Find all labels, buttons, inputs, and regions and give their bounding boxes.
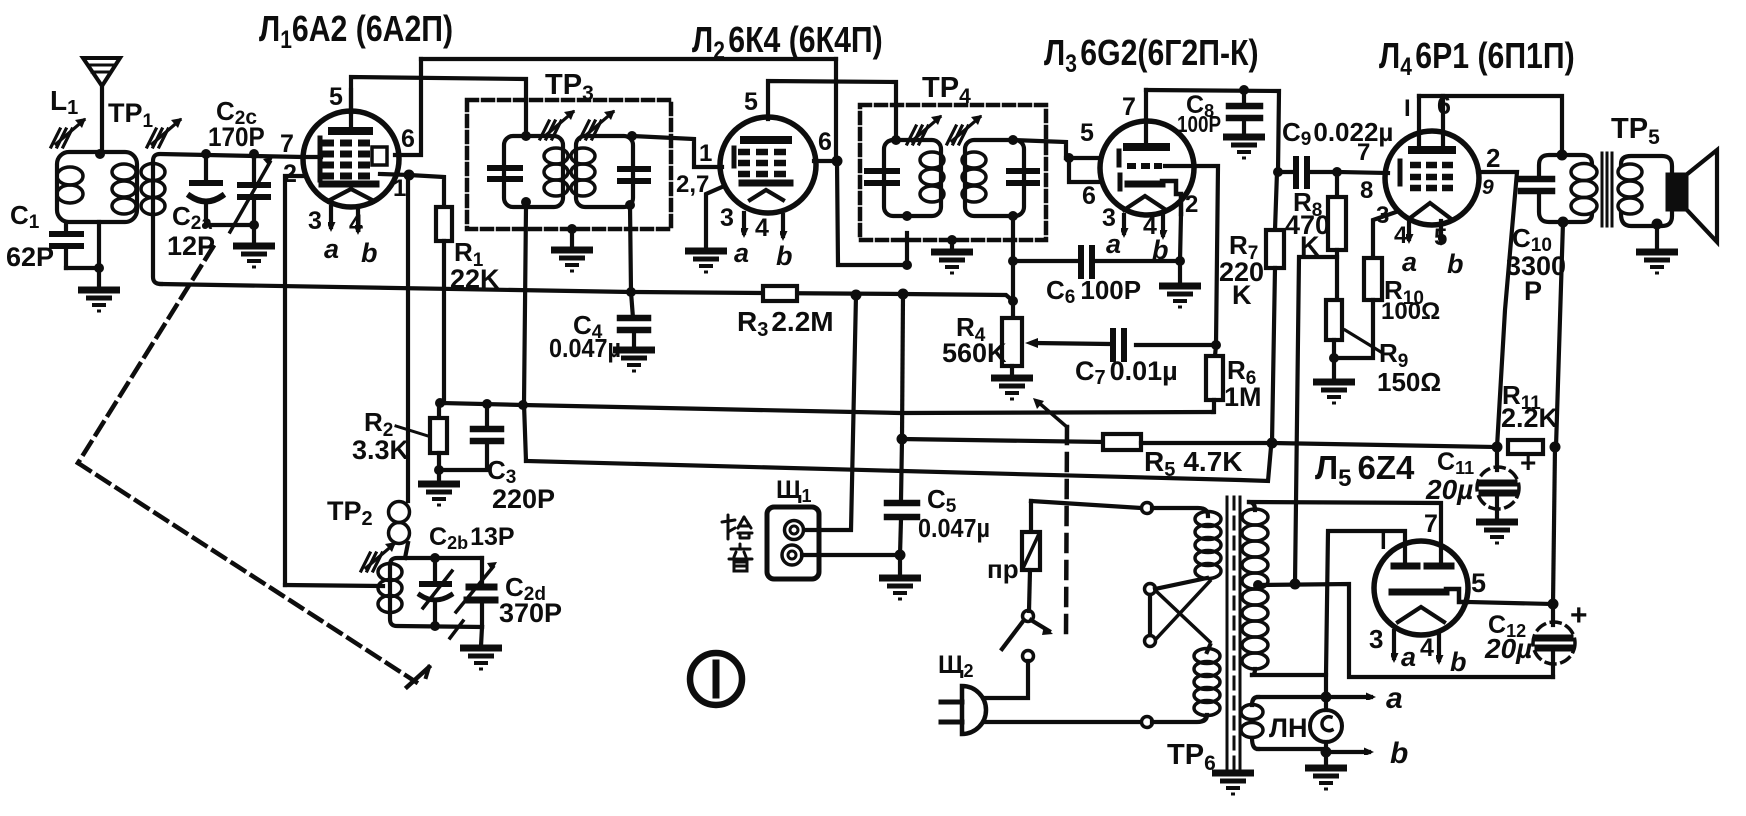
- ground under V2 cathode: [685, 251, 727, 272]
- pin 6 riser of V4: [1441, 96, 1445, 147]
- svg-text:TP2: TP2: [327, 496, 373, 530]
- node tank bottom: [430, 621, 440, 631]
- wire R3 node down to B+ bus: [902, 294, 903, 439]
- tube V4 envelope: [1385, 131, 1479, 225]
- pin 1 riser of V4: [1417, 96, 1421, 147]
- anode bar of V2: [744, 136, 788, 144]
- svg-text:TP1: TP1: [108, 98, 154, 132]
- ground under C6: [1159, 286, 1201, 307]
- svg-text:a: a: [734, 238, 749, 268]
- wire pin1 to R1: [409, 175, 444, 207]
- wire R2 bottom to ground: [437, 470, 441, 482]
- mains plug SH2: [941, 686, 986, 734]
- antenna: [83, 58, 120, 154]
- node B+ bus left end: [897, 434, 908, 445]
- node tank top: [430, 553, 440, 563]
- loudspeaker: [1668, 150, 1717, 242]
- node C12 top: [1548, 599, 1559, 610]
- svg-text:Л46Р1 (6П1П): Л46Р1 (6П1П): [1379, 37, 1575, 81]
- svg-text:b: b: [776, 241, 793, 271]
- oscillator tank coil: [378, 558, 482, 627]
- node AVC at R2: [435, 398, 445, 408]
- svg-text:100P: 100P: [1177, 112, 1221, 137]
- svg-text:7: 7: [1357, 139, 1370, 166]
- ground under R2: [418, 484, 460, 505]
- grid dashes of V3: [1127, 163, 1162, 169]
- svg-text:C2b13P: C2b13P: [429, 523, 515, 553]
- node lamp top: [1321, 692, 1332, 703]
- svg-text:I: I: [1404, 95, 1411, 122]
- wire V3 plate to C8/R7: [1146, 90, 1279, 172]
- svg-text:5: 5: [1434, 224, 1447, 251]
- node TP4 secondary top: [1008, 135, 1018, 145]
- svg-text:5: 5: [1471, 568, 1486, 598]
- svg-text:+: +: [1520, 447, 1536, 478]
- svg-text:20µ: 20µ: [1484, 633, 1532, 664]
- svg-text:Л36G2(6Г2П-К): Л36G2(6Г2П-К): [1044, 34, 1259, 78]
- svg-text:1M: 1M: [1224, 382, 1262, 412]
- label R9 with leader: [1345, 330, 1381, 352]
- pin 6 tab of V1: [372, 147, 387, 165]
- svg-text:7: 7: [280, 130, 294, 158]
- adjustable-core arrow TP3 primary: [540, 110, 575, 139]
- capacitor C12 (electrolytic): [1533, 604, 1575, 677]
- cathode bar of V3: [1128, 181, 1162, 188]
- tube V3 envelope: [1100, 121, 1194, 215]
- resistor R10: [1339, 212, 1396, 358]
- resistor R2: [430, 403, 447, 470]
- adjustable-core arrow TP4 secondary: [947, 115, 982, 144]
- svg-text:6: 6: [818, 128, 832, 156]
- wire B+ right rail: [1553, 447, 1555, 604]
- resistor R7: [1266, 172, 1284, 443]
- TP6 primary bottom terminal: [1142, 717, 1153, 728]
- wire V4 plate to TP5: [1419, 96, 1562, 155]
- label pickup hanzi 2: [729, 544, 752, 571]
- cathode hook of V5: [1446, 589, 1467, 602]
- svg-text:5: 5: [1080, 119, 1094, 147]
- wire to pin5 of V3: [1066, 156, 1100, 160]
- node V3 diode junction: [1064, 153, 1074, 163]
- node C2c bottom: [249, 220, 259, 230]
- TP6 voltage selector: [1145, 581, 1211, 647]
- node C8 top: [1239, 85, 1249, 95]
- svg-text:+: +: [1570, 599, 1588, 632]
- wire pin6 of V1: [395, 59, 421, 155]
- ground under C11: [1476, 522, 1518, 543]
- potentiometer R4: [1002, 318, 1022, 376]
- cathode bar of V2: [742, 180, 790, 187]
- wire R9 bottom to ground: [1332, 358, 1336, 380]
- capacitor C9: [1278, 159, 1337, 186]
- wire pins 2,7 of V2 to ground: [706, 187, 722, 248]
- svg-text:TP5: TP5: [1611, 113, 1660, 149]
- node C2a top: [201, 149, 211, 159]
- node AVC at C3: [482, 399, 492, 409]
- capacitor C2c (variable): [230, 154, 273, 232]
- capacitor C3: [444, 404, 501, 470]
- resistor R5: [1103, 434, 1141, 450]
- resistor R6: [1206, 345, 1223, 412]
- svg-text:20µ: 20µ: [1425, 474, 1473, 505]
- TP4 shield ground node: [947, 235, 957, 245]
- node TP4 secondary bottom: [1008, 211, 1018, 221]
- TP5 core: [1602, 153, 1612, 226]
- capacitor C2d (variable): [450, 558, 497, 638]
- power switch: [1002, 611, 1053, 662]
- label pickup hanzi 1: [722, 515, 752, 539]
- capacitor C8: [1229, 90, 1260, 135]
- wire pin6 of V2: [814, 159, 837, 163]
- svg-text:62P: 62P: [6, 242, 54, 272]
- plate bars of V5: [1394, 563, 1417, 570]
- svg-text:150Ω: 150Ω: [1377, 367, 1441, 397]
- anode bar of V3: [1127, 143, 1166, 151]
- svg-text:0.047µ: 0.047µ: [918, 515, 990, 543]
- resistor R3: [763, 286, 797, 301]
- output transformer TP5: [1539, 155, 1597, 222]
- heater pin 4 arrow of V5: [1437, 633, 1441, 660]
- wire plug lower to TP6: [985, 720, 1140, 724]
- node TP4 primary bottom: [902, 211, 912, 221]
- svg-text:3: 3: [1369, 624, 1383, 654]
- svg-text:K: K: [1232, 280, 1252, 310]
- pin 5 riser of V1: [349, 90, 353, 129]
- svg-text:C70.01µ: C70.01µ: [1075, 356, 1178, 389]
- wire V1 plate to TP3 primary: [351, 77, 526, 136]
- svg-text:3: 3: [1102, 204, 1116, 232]
- capacitor C1: [52, 222, 99, 268]
- node C5 bottom: [895, 550, 906, 561]
- resistor R8: [1328, 172, 1346, 300]
- oscillator feedback coil TP2: [389, 502, 410, 559]
- adjustable-core arrow TP3 secondary: [580, 110, 615, 139]
- svg-text:9: 9: [1482, 176, 1494, 199]
- svg-text:a: a: [1106, 229, 1121, 259]
- heater pin 4 arrow of V2: [781, 215, 785, 236]
- node TP1 return: [94, 263, 104, 273]
- capacitor C4: [620, 318, 648, 347]
- ground under TP3: [551, 250, 593, 271]
- ground under oscillator tank: [460, 648, 502, 669]
- node C4 top on bus: [626, 287, 636, 297]
- adjustable-core arrow of oscillator coil: [361, 542, 396, 571]
- diode plate tabs of V3: [1117, 151, 1122, 165]
- svg-text:Щ2: Щ2: [938, 651, 974, 681]
- label R2 with leader: [396, 426, 428, 436]
- heater feed a arrow: [1326, 695, 1371, 699]
- svg-text:2: 2: [1185, 191, 1198, 218]
- wire pin1 of V5 to HV bottom: [1252, 531, 1405, 675]
- wire AVC line R2 to R6: [440, 403, 1213, 413]
- adjustable-core arrow of antenna-coil secondary: [147, 118, 182, 147]
- node HV center tap: [1253, 580, 1263, 590]
- wire pin6 node up to B+ bus: [834, 59, 838, 161]
- node TP5 primary top: [1557, 150, 1568, 161]
- svg-text:Л26К4 (6К4П): Л26К4 (6К4П): [692, 21, 883, 65]
- capacitor C11 (electrolytic): [1477, 447, 1519, 520]
- node TP5 secondary bottom: [1652, 219, 1663, 230]
- wire C5 to ground: [898, 555, 902, 576]
- svg-text:5: 5: [329, 83, 343, 111]
- ground under C4: [613, 350, 655, 371]
- heater pin 3 arrow of V1: [329, 207, 333, 227]
- wire bus to lamp: [1324, 675, 1328, 697]
- svg-text:0.047µ: 0.047µ: [549, 335, 621, 363]
- svg-text:1: 1: [393, 175, 406, 202]
- TP6 primary top terminal: [1142, 503, 1153, 514]
- wire pin1 of V1: [380, 174, 409, 175]
- node R11 left: [1492, 442, 1503, 453]
- svg-text:P: P: [1524, 276, 1542, 306]
- svg-text:C90.022µ: C90.022µ: [1282, 117, 1393, 150]
- wire TP3 shield to ground: [570, 229, 574, 247]
- wire pin7 entry of V1: [303, 155, 321, 159]
- switch link arrow at R4: [1038, 402, 1067, 427]
- resistor R1: [436, 207, 452, 403]
- grid side-rod of V2: [732, 148, 737, 166]
- heater pin 3 arrow of V2: [742, 213, 746, 233]
- TP3 primary tank: [490, 136, 568, 207]
- svg-text:b: b: [1450, 647, 1467, 677]
- wire pin6 node down to TP4 primary bottom: [837, 161, 907, 265]
- grid rows of V2: [738, 152, 786, 174]
- svg-text:22K: 22K: [450, 264, 500, 294]
- capacitor C5: [887, 439, 917, 555]
- node TP4 primary bottom link: [902, 260, 912, 270]
- heater caret of V2: [750, 190, 783, 200]
- node lamp bottom: [1321, 747, 1332, 758]
- wire TP5 secondary to ground: [1655, 224, 1659, 250]
- svg-text:TP6: TP6: [1167, 739, 1216, 775]
- svg-text:3: 3: [720, 204, 734, 232]
- svg-text:b: b: [1390, 737, 1408, 770]
- grid rows of V1: [322, 143, 370, 176]
- cathode bar of V5: [1392, 589, 1446, 596]
- svg-text:Л16А2 (6А2П): Л16А2 (6А2П): [259, 10, 453, 54]
- svg-text:a: a: [1401, 642, 1416, 672]
- node C9/R7: [1273, 167, 1283, 177]
- svg-text:4: 4: [1420, 634, 1434, 662]
- tube V1 envelope: [303, 111, 399, 207]
- pin 7 riser of V3: [1144, 90, 1148, 144]
- cathode hook of V3: [1162, 181, 1181, 214]
- svg-text:b: b: [1447, 249, 1464, 279]
- svg-text:4: 4: [349, 210, 363, 238]
- TP6 HV secondary: [1242, 502, 1268, 675]
- heater caret of V3: [1124, 196, 1166, 210]
- gang link arrowhead: [407, 667, 429, 687]
- wire link up to TP4 primary: [905, 233, 909, 265]
- wire C4 top: [631, 292, 633, 318]
- wire TP4 secondary top to V3 diode plates: [1013, 140, 1066, 158]
- node R2 bottom: [434, 465, 444, 475]
- node TP3 primary top: [521, 131, 531, 141]
- ground under C8: [1223, 137, 1265, 158]
- svg-text:7: 7: [1424, 510, 1438, 538]
- cathode bar of V1: [322, 181, 376, 188]
- wire to pin6 of V3: [1069, 158, 1102, 182]
- wire TP1 bottom to ground node: [97, 222, 101, 288]
- TP5 secondary: [1618, 156, 1672, 226]
- svg-text:TP4: TP4: [922, 72, 971, 108]
- node R3 right: [898, 289, 909, 300]
- capacitor C10: [1521, 179, 1552, 191]
- TP3 shield ground node: [567, 224, 577, 234]
- node C6 right: [1175, 256, 1185, 266]
- pilot lamp LN: [1310, 697, 1342, 766]
- TP4 primary tank: [867, 140, 944, 216]
- heater pin 5 arrow of V4: [1439, 221, 1443, 241]
- anode bar of V1: [332, 127, 369, 135]
- svg-text:a: a: [1386, 682, 1403, 715]
- tube V2 envelope: [720, 117, 816, 213]
- power transformer TP6 core: [1227, 497, 1240, 768]
- node C6 left: [1008, 256, 1018, 266]
- node R11 right: [1550, 442, 1561, 453]
- svg-text:220P: 220P: [492, 484, 555, 514]
- node R3 bus to volume column: [1008, 296, 1018, 306]
- pickup jack SH1: [767, 507, 819, 579]
- grid side-rod of V1: [318, 138, 323, 180]
- capacitor C2a: [190, 154, 254, 225]
- wire TP3 secondary top to V2 grid: [632, 136, 722, 167]
- node CT and R8 tap column: [1290, 579, 1301, 590]
- figure number badge: [690, 653, 742, 705]
- svg-text:a: a: [1402, 247, 1417, 277]
- heater pin 3 arrow of V3: [1122, 215, 1126, 233]
- resistor R9: [1326, 300, 1342, 358]
- svg-text:6: 6: [401, 125, 415, 153]
- ground under R9: [1313, 382, 1355, 403]
- svg-text:2: 2: [1486, 143, 1500, 173]
- wire C6 right to ground: [1178, 261, 1182, 284]
- svg-text:4: 4: [755, 214, 769, 242]
- svg-text:C5: C5: [927, 484, 957, 517]
- wire V4 screen pin2 down to C11 node: [1478, 172, 1517, 447]
- ground under TP6 core: [1212, 773, 1254, 794]
- wire pin2 of V1 to oscillator tank: [285, 176, 306, 585]
- grid rows of V4: [1410, 165, 1453, 188]
- node R7 bottom on bus: [1267, 438, 1278, 449]
- svg-text:b: b: [361, 238, 378, 268]
- wire detector line to rectifier junction: [526, 447, 1271, 481]
- heater pin 4 arrow of V3: [1161, 216, 1165, 235]
- wire HV top to pin7 of V5: [1249, 502, 1441, 563]
- wire grid to V4: [1337, 172, 1388, 173]
- heater pin 4 arrow of V1: [356, 207, 360, 230]
- svg-text:3: 3: [1376, 202, 1389, 229]
- node AVC at TP3 column: [518, 400, 528, 410]
- node TP3 secondary top: [627, 131, 637, 141]
- node R9/R10 bottom: [1329, 353, 1339, 363]
- wire R8 tap to rectifier CT: [1295, 257, 1337, 584]
- svg-text:C6100P: C6100P: [1046, 275, 1141, 308]
- svg-text:a: a: [324, 234, 339, 264]
- svg-text:пр: пр: [987, 554, 1019, 584]
- wire TP4 shield to ground: [950, 240, 954, 249]
- heater caret of V5: [1398, 607, 1444, 622]
- ground under C2c: [233, 246, 275, 267]
- ground under TP4: [931, 252, 973, 273]
- svg-text:L1: L1: [50, 85, 78, 119]
- wire tank to ground: [481, 627, 482, 646]
- svg-text:170P: 170P: [208, 123, 265, 152]
- capacitor C6: [1013, 248, 1180, 276]
- wire V1 pin2 to oscillator coil tap: [285, 585, 383, 586]
- tube V5 envelope: [1374, 541, 1468, 635]
- fuse PR: [1022, 501, 1040, 611]
- grid side-rod of V4: [1398, 161, 1403, 184]
- wire V5 cathode to C12 node: [1467, 602, 1553, 604]
- wire pin1 to TP2: [406, 177, 410, 501]
- wire TP3 primary bottom down: [524, 207, 526, 461]
- ground under C5: [879, 578, 921, 599]
- node C7/R6: [1211, 340, 1221, 350]
- svg-text:R32.2M: R32.2M: [737, 306, 834, 341]
- node TP3 secondary bottom: [625, 200, 635, 210]
- svg-text:7: 7: [1122, 93, 1136, 121]
- svg-text:2.2K: 2.2K: [1501, 403, 1559, 433]
- wire plug to switch: [984, 661, 1028, 698]
- wire pin2 of V3 down: [1180, 214, 1181, 261]
- wire upper jack to detector column: [804, 295, 856, 530]
- ground under TP5: [1636, 252, 1678, 273]
- adjustable-core arrow TP4 primary: [907, 115, 942, 144]
- svg-text:4: 4: [1394, 222, 1408, 249]
- tuned antenna tank coil: [141, 154, 303, 284]
- ground under TP1: [78, 290, 120, 311]
- node pin1 of V1: [404, 170, 415, 181]
- node pin6 of V2: [832, 156, 843, 167]
- heater caret of V1: [328, 189, 374, 201]
- IF transformer TP3 shield box: [467, 100, 671, 229]
- svg-text:R54.7K: R54.7K: [1144, 446, 1243, 481]
- TP6 primary upper winding: [1152, 508, 1221, 589]
- svg-text:6: 6: [1082, 182, 1096, 210]
- dashed switch link: [1066, 427, 1067, 638]
- heater pin 4 arrow of V4: [1407, 219, 1411, 239]
- svg-text:100Ω: 100Ω: [1381, 298, 1440, 325]
- node TP3 primary bottom: [521, 197, 531, 207]
- svg-text:ЛН: ЛН: [1269, 713, 1307, 743]
- wire V2 plate pin5 to TP4: [768, 81, 896, 140]
- capacitor C2b (trimmer): [420, 558, 452, 626]
- svg-text:560K: 560K: [942, 338, 1007, 368]
- svg-text:C1: C1: [10, 200, 40, 233]
- wire B+ top bus: [421, 57, 836, 61]
- svg-text:3: 3: [308, 207, 322, 235]
- TP6 primary lower winding: [1152, 645, 1220, 722]
- node C2c top: [249, 149, 259, 159]
- svg-text:5: 5: [744, 88, 758, 116]
- IF transformer TP4 shield box: [860, 105, 1046, 240]
- wire HV center tap: [1258, 584, 1553, 677]
- ground under R4: [991, 378, 1033, 399]
- wire TP3 secondary bottom to bus: [630, 205, 631, 292]
- anode bar of V4: [1412, 146, 1452, 154]
- svg-text:Л56Z4: Л56Z4: [1315, 449, 1415, 492]
- wire TP5 primary bottom to B+: [1556, 222, 1563, 447]
- svg-text:370P: 370P: [499, 598, 562, 628]
- transformer TP1: [57, 152, 137, 222]
- svg-text:1: 1: [699, 140, 712, 167]
- svg-text:TP3: TP3: [545, 69, 594, 105]
- wire TP4 secondary bottom column: [1011, 216, 1015, 320]
- heater caret of V4: [1410, 203, 1450, 218]
- TP6 heater winding: [1241, 697, 1322, 749]
- node C9/R8/V4 grid: [1332, 167, 1342, 177]
